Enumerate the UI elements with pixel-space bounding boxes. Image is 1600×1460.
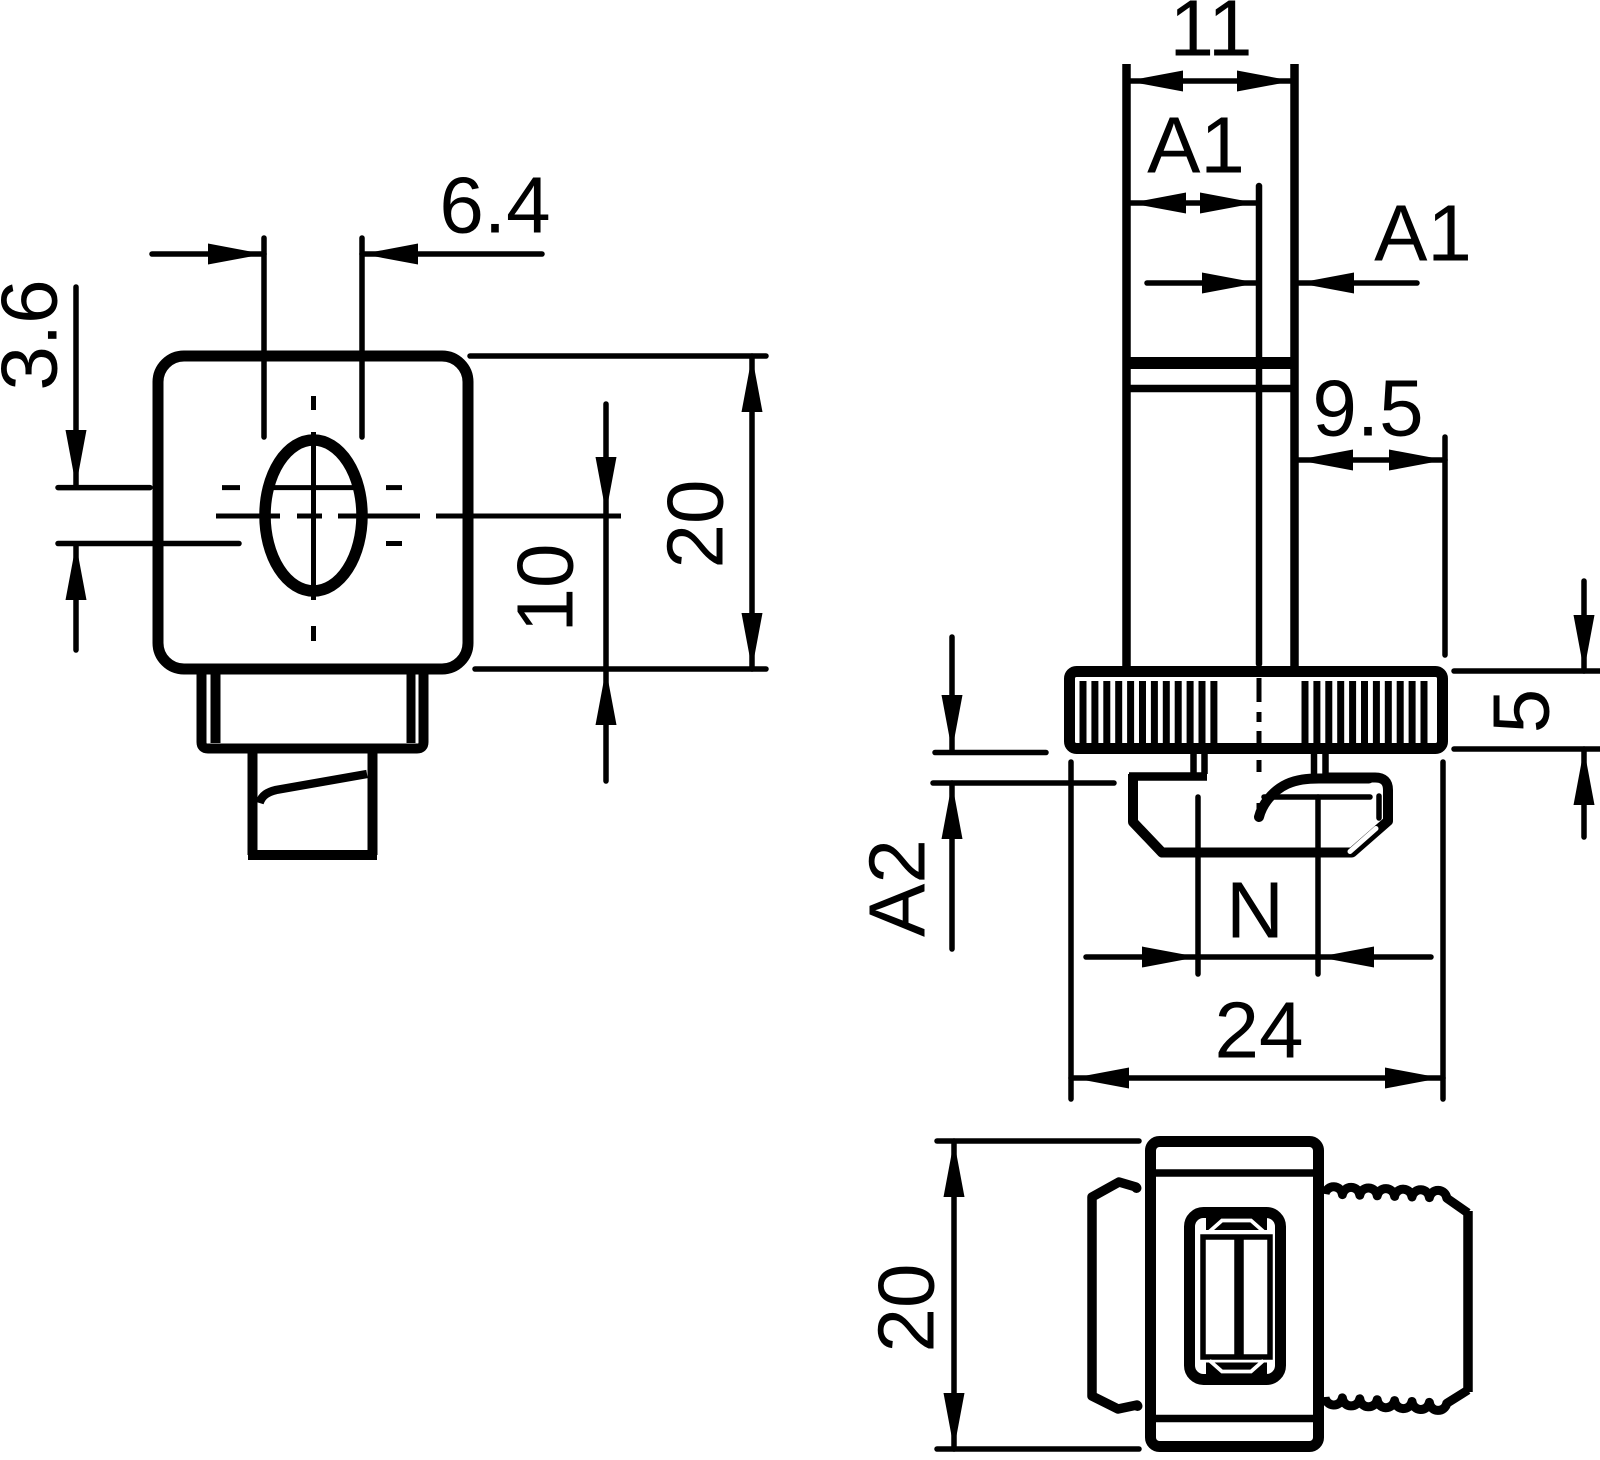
dimension N extension lines <box>1198 797 1318 974</box>
bottom view body cap lines <box>1150 1173 1319 1419</box>
front view threaded collar <box>202 669 424 749</box>
dimension 5 line and arrows <box>1574 581 1595 837</box>
dimension 10 line and arrows <box>596 404 617 781</box>
bottom view center bar <box>1234 1237 1244 1357</box>
dimension 3.6 extension lines <box>58 488 239 544</box>
bottom view threaded stud <box>1325 1187 1468 1411</box>
svg-text:11: 11 <box>1169 0 1252 73</box>
dimension A2 line and arrows <box>942 637 963 949</box>
bottom view body outline <box>1151 1142 1319 1447</box>
dimension N line and arrows <box>1086 947 1431 968</box>
side view knurled flange outline <box>1070 672 1443 749</box>
svg-text:3.6: 3.6 <box>0 279 74 390</box>
svg-text:5: 5 <box>1477 689 1566 734</box>
side view centerline <box>1257 678 1262 816</box>
bottom view left wing <box>1092 1182 1143 1411</box>
dimension 3.6 line and arrows <box>66 287 87 650</box>
dimension 20 bottom line and arrows <box>944 1141 965 1449</box>
bottom view slot window <box>1190 1213 1281 1380</box>
flange knurling left group <box>1083 681 1214 744</box>
side view shaft band <box>1123 363 1298 389</box>
side view shaft edges <box>1127 64 1295 671</box>
svg-text:9.5: 9.5 <box>1312 364 1423 453</box>
side view T-head outline <box>1129 752 1388 853</box>
svg-text:10: 10 <box>501 544 590 633</box>
svg-text:N: N <box>1226 866 1284 955</box>
svg-text:A2: A2 <box>853 839 942 937</box>
slot vertical centerline <box>311 396 316 641</box>
dimension 20 extension lines <box>470 356 766 669</box>
front view body outline <box>158 356 468 669</box>
svg-text:24: 24 <box>1215 986 1304 1075</box>
dimension 9.5 extension line <box>1442 437 1448 655</box>
svg-text:20: 20 <box>651 480 740 569</box>
dimension A2 extension lines <box>933 753 1114 784</box>
dimension 6.4 line and arrows <box>152 244 542 265</box>
slot middle centerline <box>216 514 621 519</box>
dimension 5 extension lines <box>1454 671 1600 749</box>
dimension A1 line and arrows <box>1130 193 1256 214</box>
slot upper centerline <box>222 485 402 490</box>
svg-text:A1: A1 <box>1374 189 1472 278</box>
bottom view inner frame <box>1203 1237 1270 1357</box>
dimension 20 bottom extension lines <box>937 1141 1139 1449</box>
slot lower centerline dash <box>386 541 402 546</box>
dimension 11 line and arrows <box>1127 71 1293 92</box>
side view A1 edge line <box>1256 186 1263 664</box>
bottom view chamfer bands <box>1206 1221 1267 1372</box>
side view T-head nose curve <box>1259 779 1379 852</box>
flange knurling right group <box>1305 681 1424 744</box>
dimension 9.5 line and arrows <box>1297 450 1445 471</box>
dimension 24 line and arrows <box>1071 1068 1443 1089</box>
dimension 20 line and arrows <box>742 356 763 669</box>
svg-text:6.4: 6.4 <box>439 161 550 250</box>
front view stem <box>248 750 377 855</box>
svg-text:A1: A1 <box>1147 101 1245 190</box>
dimension A1 right leader and arrows <box>1147 273 1417 294</box>
dimension 6.4 extension lines <box>264 238 362 437</box>
svg-text:20: 20 <box>862 1264 951 1353</box>
front view slot hole <box>265 440 362 591</box>
dimension 24 extension lines <box>1071 762 1443 1099</box>
